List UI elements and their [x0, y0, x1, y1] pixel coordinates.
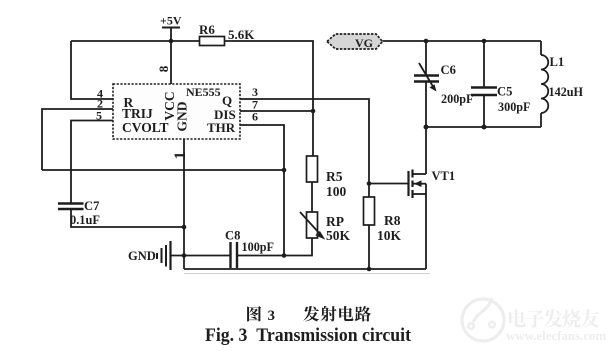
resistor R5: [307, 156, 347, 199]
svg-text:C7: C7: [84, 199, 99, 213]
ground symbol GND: [128, 241, 171, 270]
wire C6 bottom to tank bottom: [425, 82, 427, 127]
svg-text:50K: 50K: [326, 228, 351, 243]
junction C5 top: [482, 39, 487, 44]
watermark logo circle: [462, 298, 504, 341]
wire pin5 to left and down to C7: [71, 121, 113, 204]
caption figure 3 chinese: [247, 306, 371, 324]
junction pin6 column / C8 wire: [282, 253, 287, 258]
resistor R6: [199, 22, 255, 46]
svg-text:GND: GND: [175, 101, 190, 131]
node VG label: [327, 34, 383, 50]
svg-text:10K: 10K: [377, 228, 402, 243]
wire gate: [369, 183, 408, 185]
svg-text:142uH: 142uH: [549, 85, 584, 99]
wire tank bottom: [426, 126, 541, 128]
svg-text:TRIJ: TRIJ: [122, 106, 153, 121]
+5V supply symbol: [160, 14, 182, 86]
svg-text:C5: C5: [497, 85, 512, 99]
capacitor C5: [471, 41, 531, 127]
wire source down to rail: [425, 184, 427, 269]
svg-text:R6: R6: [199, 22, 215, 37]
inductor L1: [541, 41, 584, 127]
junction pin7/R6 column: [311, 109, 316, 114]
svg-text:100pF: 100pF: [242, 240, 275, 254]
junction pin1 riser / GND wire: [182, 253, 187, 258]
wire pin6 down to trigger net: [240, 125, 284, 256]
junction tank bottom / C5: [482, 125, 487, 130]
op-amp/timer U1 NE555 box: [113, 84, 240, 139]
svg-text:Q: Q: [222, 93, 232, 108]
svg-text:0.1uF: 0.1uF: [70, 213, 100, 227]
wire rail scan shadow: [184, 273, 430, 275]
bottom ground rail: [184, 268, 426, 270]
svg-text:300pF: 300pF: [498, 100, 531, 114]
svg-text:RP: RP: [326, 214, 344, 229]
svg-text:www.elecfans.com: www.elecfans.com: [506, 329, 606, 343]
svg-text:5.6K: 5.6K: [228, 27, 255, 42]
wire pin3 to R8 column: [240, 99, 369, 197]
junction C6 top: [424, 39, 429, 44]
junction +5V on top wire: [169, 39, 174, 44]
wire drain up to tank: [425, 127, 427, 174]
svg-text:NE555: NE555: [186, 85, 221, 99]
svg-text:L1: L1: [550, 55, 565, 69]
wire pin1 down: [183, 139, 185, 269]
svg-text:VG: VG: [355, 36, 373, 50]
wire pin2 to left and down: [42, 109, 113, 170]
transistor VT1 (N-MOSFET): [409, 169, 456, 198]
svg-text:1: 1: [172, 152, 189, 160]
wire pin4 riser: [71, 41, 113, 99]
wire C7 bottom to pin1 riser: [71, 209, 184, 227]
svg-text:CVOLT: CVOLT: [122, 120, 169, 135]
junction C7 wire / pin1 riser: [182, 225, 187, 230]
svg-text:C6: C6: [441, 63, 456, 77]
svg-text:C8: C8: [225, 229, 240, 243]
wire RP bottom to C8 net: [238, 238, 313, 256]
wire top-left horizontal to R6: [71, 40, 200, 42]
wire R5 to RP: [311, 182, 313, 212]
capacitor C6 (variable): [414, 41, 474, 106]
svg-text:VT1: VT1: [432, 169, 456, 183]
svg-text:GND: GND: [128, 249, 156, 263]
capacitor C8: [225, 229, 274, 269]
capacitor C7: [58, 199, 100, 227]
svg-text:8: 8: [156, 65, 171, 72]
resistor R8: [364, 197, 402, 243]
wire GND to C8 left plate: [171, 255, 231, 257]
svg-text:R5: R5: [326, 169, 343, 184]
wire R6 to corner: [225, 41, 314, 156]
svg-text:R8: R8: [384, 213, 401, 228]
junction tank bottom / drain: [424, 125, 429, 130]
svg-text:Fig. 3 Transmission circuit: Fig. 3 Transmission circuit: [205, 326, 412, 346]
wire R8 bottom to rail: [368, 225, 370, 269]
potentiometer RP: [300, 212, 351, 243]
watermark chinese text: [509, 309, 599, 327]
junction gate wire / pin3 column: [367, 181, 372, 186]
svg-text:100: 100: [326, 184, 347, 199]
junction R8 / rail: [367, 267, 372, 272]
svg-text:3: 3: [268, 308, 276, 324]
svg-text:+5V: +5V: [160, 14, 182, 28]
wire trigger net horizontal: [42, 169, 284, 171]
svg-text:200pF: 200pF: [441, 92, 474, 106]
junction pin6 column / trigger wire: [282, 168, 287, 173]
wire VG to L1: [383, 40, 542, 42]
wire pin7 to R5 column: [240, 110, 313, 112]
svg-text:THR: THR: [207, 120, 236, 135]
